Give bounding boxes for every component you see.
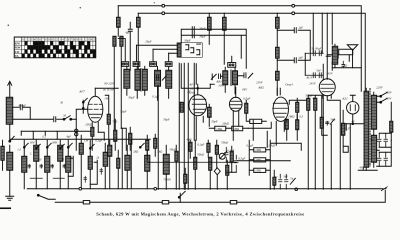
svg-text:50kΩ: 50kΩ bbox=[197, 152, 204, 156]
svg-text:7kΩ: 7kΩ bbox=[112, 119, 118, 123]
svg-text:30μF: 30μF bbox=[128, 95, 135, 99]
svg-text:1MΩ: 1MΩ bbox=[216, 128, 222, 131]
svg-text:5kΩ: 5kΩ bbox=[330, 117, 336, 121]
svg-text:1MΩ: 1MΩ bbox=[233, 128, 239, 131]
svg-text:20kΩ: 20kΩ bbox=[222, 121, 229, 125]
svg-text:3kΩ: 3kΩ bbox=[157, 149, 163, 153]
svg-text:M: M bbox=[59, 100, 63, 104]
svg-text:5nF: 5nF bbox=[283, 174, 288, 178]
svg-text:1MΩ: 1MΩ bbox=[255, 159, 261, 162]
svg-text:MW: MW bbox=[51, 140, 57, 144]
svg-text:L: L bbox=[29, 151, 32, 155]
svg-text:30: 30 bbox=[38, 157, 42, 161]
svg-text:20μF: 20μF bbox=[145, 39, 152, 43]
svg-text:zu 1k mA: zu 1k mA bbox=[102, 87, 114, 91]
svg-text:1MΩ: 1MΩ bbox=[288, 114, 295, 118]
svg-text:M: M bbox=[62, 113, 66, 117]
svg-text:1μF: 1μF bbox=[298, 55, 303, 59]
svg-text:8μF: 8μF bbox=[370, 137, 375, 141]
svg-text:4μF: 4μF bbox=[125, 30, 130, 34]
svg-text:40Ω: 40Ω bbox=[186, 137, 192, 141]
svg-text:AF7: AF7 bbox=[78, 89, 85, 93]
svg-text:1μF: 1μF bbox=[298, 25, 303, 29]
svg-text:Oma4: Oma4 bbox=[285, 82, 293, 86]
svg-text:AB2: AB2 bbox=[257, 85, 264, 89]
svg-text:50pF: 50pF bbox=[211, 119, 218, 123]
svg-text:ω: ω bbox=[275, 174, 277, 178]
svg-text:5n 30μF: 5n 30μF bbox=[311, 46, 321, 50]
svg-text:1W: 1W bbox=[104, 96, 109, 100]
svg-text:20kΩ: 20kΩ bbox=[268, 143, 275, 147]
svg-text:30μF: 30μF bbox=[199, 26, 206, 30]
svg-text:Schaub, 629 W mit Magischem Au: Schaub, 629 W mit Magischem Auge, Wechse… bbox=[96, 211, 304, 216]
svg-text:KW: KW bbox=[29, 140, 35, 144]
svg-text:5n: 5n bbox=[290, 176, 294, 180]
svg-text:1MΩ: 1MΩ bbox=[255, 169, 261, 172]
svg-text:AZ1: AZ1 bbox=[341, 96, 348, 100]
svg-text:200Ω: 200Ω bbox=[85, 122, 93, 126]
svg-text:30μF: 30μF bbox=[199, 34, 206, 38]
svg-text:50pF: 50pF bbox=[120, 109, 127, 113]
svg-text:15: 15 bbox=[61, 157, 65, 161]
svg-text:50kΩ: 50kΩ bbox=[169, 147, 176, 151]
svg-text:5nF: 5nF bbox=[316, 68, 321, 72]
svg-text:7kΩ: 7kΩ bbox=[342, 63, 348, 67]
svg-text:AL4: AL4 bbox=[305, 75, 312, 79]
svg-text:4μF: 4μF bbox=[66, 134, 71, 138]
svg-text:30μF: 30μF bbox=[184, 38, 191, 42]
svg-text:450pF: 450pF bbox=[18, 103, 26, 107]
svg-text:2kΩ: 2kΩ bbox=[133, 149, 139, 153]
svg-text:70000: 70000 bbox=[163, 177, 171, 181]
svg-text:1MΩ: 1MΩ bbox=[255, 149, 261, 152]
svg-text:30pF: 30pF bbox=[163, 117, 170, 121]
svg-text:90-120V: 90-120V bbox=[104, 81, 115, 85]
svg-text:50kΩ: 50kΩ bbox=[305, 93, 312, 97]
svg-text:50kΩ: 50kΩ bbox=[221, 140, 228, 144]
svg-text:LW: LW bbox=[83, 138, 89, 142]
